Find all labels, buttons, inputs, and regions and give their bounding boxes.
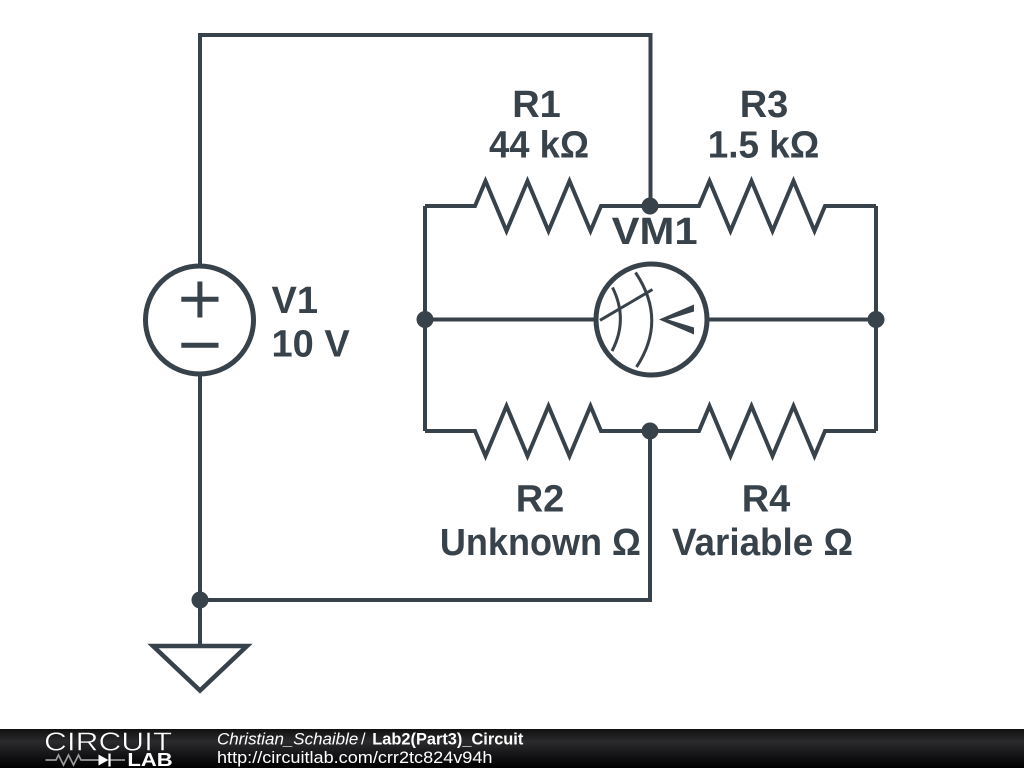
svg-text:V1: V1 — [272, 280, 318, 322]
svg-text:VM1: VM1 — [612, 211, 698, 253]
svg-text:10 V: 10 V — [272, 324, 351, 366]
svg-text:1.5 kΩ: 1.5 kΩ — [708, 125, 820, 167]
svg-text:Lab2(Part3)_Circuit: Lab2(Part3)_Circuit — [372, 730, 524, 748]
svg-text:/: / — [361, 730, 366, 748]
svg-text:R3: R3 — [740, 84, 789, 126]
svg-text:Unknown Ω: Unknown Ω — [440, 522, 641, 564]
svg-text:Variable Ω: Variable Ω — [672, 522, 853, 564]
svg-text:R2: R2 — [516, 479, 565, 521]
svg-text:Christian_Schaible: Christian_Schaible — [217, 730, 358, 748]
svg-text:LAB: LAB — [127, 750, 172, 768]
svg-text:R1: R1 — [512, 84, 561, 126]
svg-text:R4: R4 — [742, 479, 791, 521]
svg-text:http://circuitlab.com/crr2tc82: http://circuitlab.com/crr2tc824v94h — [217, 749, 493, 767]
svg-text:44 kΩ: 44 kΩ — [489, 125, 589, 167]
